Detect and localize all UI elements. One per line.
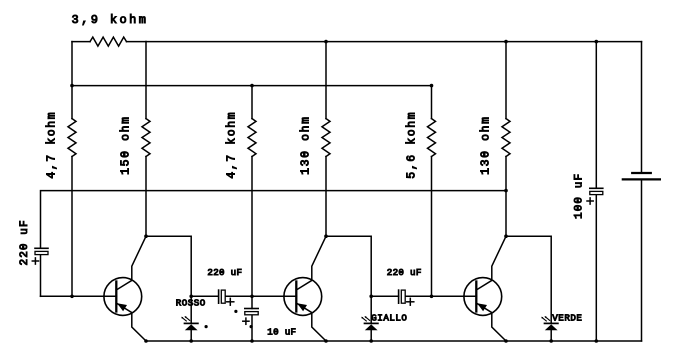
junction dots xyxy=(324,40,328,44)
svg-text:4,7 kohm: 4,7 kohm xyxy=(226,111,239,179)
resistor 130 ohm (collector Q2) xyxy=(325,42,327,119)
wire bottom rail xyxy=(146,340,642,342)
svg-text:220 uF: 220 uF xyxy=(387,267,422,278)
svg-text:100 uF: 100 uF xyxy=(574,173,586,219)
capacitor 220 uF (coupling, C4) xyxy=(398,290,400,303)
wire collector Q2 to C4 xyxy=(371,295,398,297)
wire C4 to base Q3 xyxy=(405,295,476,297)
resistor 130 ohm (collector Q3) xyxy=(505,42,507,119)
wire 100uF bottom xyxy=(595,195,597,341)
wire collector Q1 to LED xyxy=(146,236,191,323)
capacitor 220 uF (input, C1) xyxy=(35,247,48,249)
wire 100uF top xyxy=(595,42,597,189)
wire top supply rail xyxy=(146,41,642,43)
svg-text:4,7 kohm: 4,7 kohm xyxy=(46,111,59,179)
wire C1 to base node Q1 xyxy=(40,255,42,297)
wire base Q1 xyxy=(41,295,117,297)
svg-text:10 uF: 10 uF xyxy=(267,327,296,338)
transistor Q1 xyxy=(104,278,142,316)
stray pin dot c xyxy=(250,325,253,328)
wire battery bottom xyxy=(641,179,643,341)
wire 10uF to rail xyxy=(251,316,253,341)
capacitor 10 uF (C3) xyxy=(245,308,258,310)
wire feedback line from collector Q3 xyxy=(41,191,507,249)
wire base-supply line xyxy=(72,85,432,87)
wire LED1 to rail xyxy=(190,330,192,341)
svg-text:3,9 kohm: 3,9 kohm xyxy=(72,13,149,27)
svg-text:ROSSO: ROSSO xyxy=(176,297,206,308)
resistor 4,7 kohm (base Q1) xyxy=(71,86,73,119)
stray pin dot a xyxy=(205,325,208,328)
svg-text:150 ohm: 150 ohm xyxy=(120,115,133,175)
battery B1 xyxy=(632,172,651,174)
wire 3.9k left leg xyxy=(71,42,73,86)
wire LED2 to rail xyxy=(370,330,372,341)
svg-text:GIALLO: GIALLO xyxy=(371,313,407,324)
resistor 150 ohm (collector Q1) xyxy=(145,42,147,119)
stray pin dot b xyxy=(234,310,237,313)
resistor 4,7 kohm (base Q2) xyxy=(251,86,253,119)
transistor Q3 xyxy=(464,278,502,316)
wire 10uF branch xyxy=(251,296,253,308)
transistor Q2 xyxy=(284,278,322,316)
svg-text:220 uF: 220 uF xyxy=(19,219,31,265)
resistor 5,6 kohm (base Q3) xyxy=(431,86,433,119)
wire LED3 to rail xyxy=(550,330,552,341)
wire collector Q1 to C2 xyxy=(191,295,218,297)
capacitor 100 uF (C5) xyxy=(590,187,603,189)
svg-text:5,6 kohm: 5,6 kohm xyxy=(406,111,419,179)
wire battery top xyxy=(641,42,643,173)
svg-text:VERDE: VERDE xyxy=(552,313,582,324)
led ROSSO (D1) xyxy=(185,322,198,324)
wire collector Q2 to LED xyxy=(326,236,371,323)
svg-text:130 ohm: 130 ohm xyxy=(480,115,493,175)
capacitor 220 uF (coupling, C2) xyxy=(218,290,220,303)
led VERDE (D3) xyxy=(545,322,558,324)
wire collector Q3 to LED xyxy=(506,236,551,323)
wire C2 to base Q2 xyxy=(225,295,296,297)
svg-text:130 ohm: 130 ohm xyxy=(300,115,313,175)
resistor 3,9 kohm xyxy=(72,41,90,43)
svg-text:220 uF: 220 uF xyxy=(207,267,242,278)
led GIALLO (D2) xyxy=(365,322,378,324)
